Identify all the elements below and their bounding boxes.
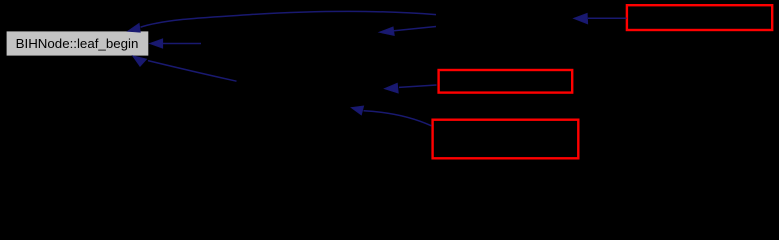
- wire edge C1 to hidden node D: [573, 13, 626, 24]
- caller node C1 (truncated, red border, top right): [627, 5, 772, 30]
- wire edge hidden node D to leaf_begin (long top curve): [127, 11, 436, 32]
- wire edge hidden node D to hidden node E: [379, 27, 436, 36]
- wire edge hidden node F to leaf_begin (diagonal): [132, 56, 236, 82]
- arrowhead into hidden node E: [379, 27, 395, 36]
- svg-text:BIHNode::leaf_begin: BIHNode::leaf_begin: [16, 36, 139, 51]
- wire edge hidden node E to leaf_begin (horizontal): [149, 39, 201, 49]
- wire edge C3 to hidden node G: [351, 106, 432, 126]
- arrowhead into hidden node F: [384, 83, 398, 93]
- arrowhead into leaf_begin top edge: [127, 23, 140, 32]
- wire edge C2 to hidden node F: [384, 83, 436, 93]
- arrowhead into hidden node D: [573, 13, 588, 24]
- arrowhead into leaf_begin right edge: [149, 39, 163, 49]
- node BIHNode::leaf_begin (current function, grey): [7, 31, 149, 55]
- caller node C2 (truncated, red border, middle): [439, 70, 573, 93]
- arrowhead into hidden node G: [351, 106, 364, 115]
- arrowhead into leaf_begin bottom edge: [132, 56, 147, 67]
- caller node C3 (truncated, red border, bottom, two-line): [433, 120, 579, 159]
